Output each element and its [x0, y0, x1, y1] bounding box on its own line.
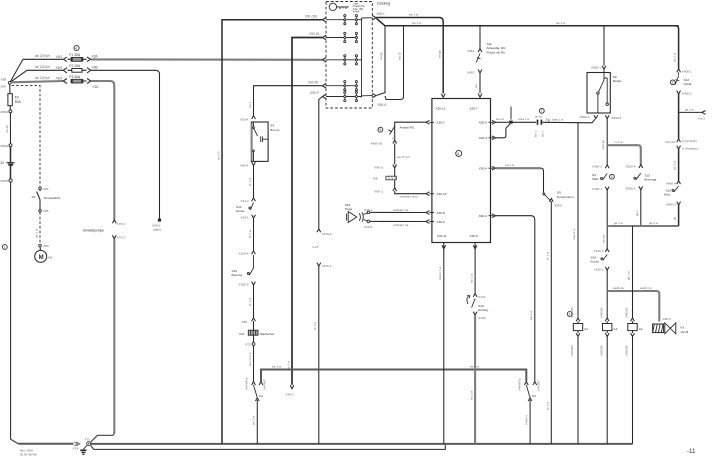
wire junction to A1: [577, 123, 579, 318]
svg-text:br 1 w: br 1 w: [248, 297, 252, 306]
wire A1 to bus: [577, 337, 579, 444]
connector X115-2: [317, 229, 332, 236]
svg-text:X485/86: X485/86: [599, 307, 603, 318]
connector X400-5: [666, 202, 681, 207]
connector X400-4: [666, 181, 681, 186]
svg-text:X20-6: X20-6: [479, 121, 488, 125]
svg-text:X8/2: X8/2: [56, 66, 63, 70]
svg-text:X70: X70: [245, 342, 251, 346]
branch X6-3: [679, 107, 706, 120]
svg-text:rosa ge: rosa ge: [601, 140, 605, 150]
svg-text:sw ge: sw ge: [437, 50, 441, 58]
svg-text:X600: X600: [554, 204, 562, 208]
pin labels right: [479, 121, 488, 219]
svg-text:Startsicher.: Startsicher.: [260, 332, 276, 336]
arrow X20/11 below box: [442, 243, 446, 249]
svg-text:S4: S4: [270, 123, 274, 127]
svg-text:sw 1 w: sw 1 w: [673, 52, 677, 62]
connector X14-1: [241, 215, 256, 220]
wire row1 to F1: [10, 59, 63, 82]
svg-text:K4: K4: [259, 394, 263, 398]
wire bus15 down to S9: [603, 26, 605, 66]
connector X444/87 right: [533, 382, 537, 385]
svg-text:br 1 w: br 1 w: [313, 321, 317, 330]
wire X20/5 down: [474, 249, 476, 293]
svg-text:br 1 w: br 1 w: [248, 177, 252, 186]
wire X20/3 jog to junction: [496, 124, 511, 138]
svg-text:ab 12(V)el: ab 12(V)el: [35, 65, 50, 69]
svg-text:ws sw: ws sw: [601, 234, 605, 243]
svg-text:X115-2: X115-2: [322, 232, 332, 236]
svg-text:weiß sw: weiß sw: [613, 286, 625, 290]
connector X140-1: [594, 249, 610, 253]
connector X90-L right edge: [372, 12, 385, 20]
connector X90-A right edge: [372, 93, 387, 106]
wire X19-2 to X20/9: [370, 220, 426, 222]
pin labels bottom: [437, 234, 478, 238]
fuse F0 50A: [8, 94, 22, 106]
svg-text:1: 1: [4, 245, 6, 249]
svg-text:A2: A2: [639, 327, 643, 331]
switch S16 Bremsg: [232, 255, 254, 277]
svg-text:X400-2: X400-2: [682, 92, 692, 96]
svg-text:M: M: [39, 255, 44, 261]
connector X100-5: [239, 282, 256, 287]
svg-text:ro 1 w: ro 1 w: [615, 140, 624, 144]
wire corner down to contact: [541, 168, 544, 192]
svg-text:X20-2: X20-2: [479, 214, 488, 218]
svg-text:X131: X131: [478, 295, 486, 299]
svg-text:X90-15: X90-15: [309, 32, 320, 36]
svg-text:ge 1 w: ge 1 w: [649, 221, 659, 225]
wire bus15 to X451: [479, 26, 481, 49]
wire K4 to bus: [256, 402, 258, 444]
fuse X11 Startsicherung: [239, 321, 275, 336]
svg-text:D1 (An.: D1 (An.: [666, 140, 677, 144]
wire X130 heavy to bus: [474, 315, 476, 444]
connector X484/86: [576, 318, 580, 321]
svg-text:Brems.: Brems.: [270, 128, 280, 132]
ignition box dashed: [326, 2, 372, 109]
svg-text:X90-A: X90-A: [378, 103, 388, 107]
svg-text:br 1 w: br 1 w: [248, 229, 252, 238]
grey bus y226: [607, 225, 678, 227]
svg-text:F0: F0: [15, 96, 19, 100]
wire A2 to bus: [632, 337, 634, 444]
switch S14 Kontakt: [591, 255, 608, 264]
svg-text:sw 1 w: sw 1 w: [469, 273, 473, 283]
wire X20/6 right: [496, 121, 510, 123]
circled ref 7: [535, 108, 544, 118]
wire X90-15 rail x292: [292, 38, 322, 385]
connector X90-15 left edge: [323, 35, 327, 40]
svg-text:X88/1: X88/1: [0, 110, 8, 114]
svg-text:Zündung: Zündung: [377, 2, 390, 6]
switch S12: [664, 186, 679, 196]
node X88/3: [0, 179, 12, 183]
svg-text:s4: s4: [392, 136, 396, 140]
svg-text:sw 1 w: sw 1 w: [286, 360, 290, 370]
svg-text:sw 1 w: sw 1 w: [529, 310, 533, 320]
arrow X20/1: [426, 120, 430, 124]
svg-text:7: 7: [541, 109, 543, 113]
svg-text:X452: X452: [467, 71, 475, 75]
circled ref 4 above F1: [74, 45, 79, 50]
svg-text:sw 1 w: sw 1 w: [412, 21, 422, 25]
svg-text:X86: X86: [43, 244, 49, 248]
svg-text:sw 1: sw 1: [248, 102, 252, 109]
svg-text:sw 1 w: sw 1 w: [252, 415, 256, 425]
svg-text:X444/87: X444/87: [537, 380, 541, 391]
svg-text:X420-1: X420-1: [592, 187, 602, 191]
bus 2 thin: [91, 445, 446, 450]
arrow into X20/7: [478, 94, 482, 98]
connector X131: [473, 294, 486, 300]
wire X20/1 to relay: [395, 122, 426, 140]
svg-text:K9: K9: [374, 176, 378, 180]
svg-text:X.6-3: X.6-3: [698, 117, 706, 121]
connector X444/87 left: [259, 382, 263, 385]
connector X486/86: [631, 318, 635, 321]
fuse A2: [628, 321, 643, 333]
connector X484/85: [576, 333, 580, 336]
ignition contacts cluster rows: [326, 15, 372, 102]
svg-text:rosa 1 w: rosa 1 w: [518, 117, 530, 121]
svg-text:X20-8: X20-8: [437, 211, 446, 215]
connector X8C: [87, 79, 91, 84]
connector X485/85: [605, 333, 609, 336]
svg-text:X74: X74: [73, 447, 79, 451]
svg-text:X90-3: X90-3: [663, 317, 672, 321]
node X73: [85, 438, 91, 446]
connector X90-R left edge: [323, 58, 327, 63]
arrow X20/5 below box: [473, 243, 477, 249]
svg-text:ab 12(V)el: ab 12(V)el: [35, 54, 50, 58]
svg-text:6: 6: [457, 152, 459, 156]
switch box S4: [251, 122, 280, 161]
svg-text:X600-3: X600-3: [611, 116, 621, 120]
svg-text:X44-2: X44-2: [286, 393, 295, 397]
connector X486/85: [631, 333, 635, 336]
solenoid valve F3: [653, 323, 689, 334]
svg-text:X85: X85: [43, 209, 49, 213]
svg-text:sw 1? w?: sw 1? w?: [397, 155, 410, 159]
arrow X20/8: [426, 211, 430, 215]
svg-text:ge 1: ge 1: [635, 210, 639, 216]
wire x318.8 lower to bus: [318, 266, 320, 444]
wire X20/4 heavy grey: [496, 167, 542, 169]
wire X90-50 rail to S4 column: [254, 86, 323, 116]
svg-text:Start: Start: [592, 177, 599, 181]
wire heavy 369.5: [261, 370, 526, 382]
svg-text:sw 1 w: sw 1 w: [35, 228, 39, 238]
node X88/1: [0, 106, 12, 114]
svg-text:X70-2: X70-2: [117, 236, 126, 240]
relay box S9: [587, 69, 622, 113]
svg-text:00.00 AB WK: 00.00 AB WK: [20, 453, 37, 457]
wire X500-1 to grey bus 226: [640, 190, 642, 226]
svg-text:X451: X451: [467, 49, 475, 53]
control unit box: [432, 99, 491, 243]
svg-text:30A: 30A: [1, 85, 7, 89]
pin labels left: [437, 121, 447, 224]
svg-text:rosa 1 w: rosa 1 w: [552, 118, 564, 122]
arrow X20/3: [492, 136, 496, 140]
dashed branch to S2: [12, 85, 41, 186]
dashed wire S2 to X86: [39, 212, 41, 244]
svg-text:sw 15: sw 15: [398, 52, 402, 60]
switch blade K3: [526, 385, 536, 398]
svg-text:sw 2.5: sw 2.5: [217, 151, 221, 160]
svg-text:sw rot 1 w: sw rot 1 w: [248, 352, 252, 366]
svg-text:A (Anschl.): A (Anschl.): [682, 139, 697, 143]
wire S4 box to X14-2: [253, 166, 255, 198]
svg-text:rot 25: rot 25: [5, 125, 9, 133]
wire X8B to x159 column: [91, 70, 160, 219]
svg-text:Entrieg.: Entrieg.: [478, 308, 489, 312]
svg-text:ab 12(V)el: ab 12(V)el: [35, 76, 50, 80]
svg-text:X88/3: X88/3: [0, 179, 8, 183]
wire X100-5 down: [253, 285, 255, 318]
terminal X09/1 end: [152, 219, 161, 232]
svg-text:ws rot: ws rot: [496, 117, 504, 121]
wire X19-1 to X20/8: [370, 211, 426, 213]
svg-text:X8C: X8C: [93, 85, 100, 89]
svg-text:31: 31: [0, 161, 4, 165]
connector X90-P left edge: [323, 94, 327, 99]
svg-text:X420-2: X420-2: [592, 165, 602, 169]
arrow into X20/12: [441, 94, 445, 98]
node X86: [39, 244, 49, 248]
wire x114 lower grey to ground node: [113, 239, 115, 433]
svg-text:rosa 1 w: rosa 1 w: [572, 228, 576, 240]
switch S4 Start: [592, 173, 607, 181]
svg-text:Ventil: Ventil: [681, 330, 689, 334]
grey branch to X500-4: [607, 145, 641, 164]
connector X87-1: [374, 188, 397, 194]
connector X8B out: [87, 68, 91, 73]
svg-text:Relais: Relais: [613, 79, 622, 83]
svg-text:X60-4: X60-4: [240, 164, 249, 168]
switch S14 Kontakt: [236, 203, 254, 213]
wire X452 to X20/7: [479, 73, 481, 93]
svg-text:3 Anl. (50): 3 Anl. (50): [353, 8, 364, 11]
connector X8/3: [63, 79, 67, 84]
fuse F3 40A: [69, 75, 86, 83]
wire X600/3 down: [606, 119, 608, 165]
svg-text:A1: A1: [584, 327, 588, 331]
svg-text:sw 1 w: sw 1 w: [673, 160, 677, 170]
connector X444/87a right: [524, 382, 528, 385]
connector X91 left edge: [323, 17, 327, 22]
svg-text:ge: ge: [673, 216, 677, 220]
svg-text:Tg: Tg: [546, 118, 550, 122]
svg-text:X486/86: X486/86: [625, 307, 629, 318]
svg-text:Umwälzpumpe: Umwälzpumpe: [83, 229, 104, 233]
svg-text:schwarz rot: schwarz rot: [393, 208, 409, 212]
wire A4 to bus: [606, 337, 608, 444]
wire x403.5 loop to X90-A: [385, 26, 404, 100]
fuse F2 15A: [68, 64, 87, 72]
switch S15 Brennga: [634, 173, 657, 181]
svg-text:gn sw: gn sw: [535, 116, 542, 119]
svg-text:Schal.: Schal.: [684, 82, 693, 86]
pin labels top: [436, 107, 479, 111]
wire row3 to F3: [11, 81, 63, 82]
hook arrow: [467, 296, 470, 305]
svg-text:ge 1 w: ge 1 w: [627, 270, 631, 280]
svg-text:A4: A4: [613, 327, 617, 331]
svg-text:braun 1 w: braun 1 w: [438, 266, 442, 280]
svg-text:X/87-2: X/87-2: [374, 165, 383, 169]
svg-text:X20-4: X20-4: [479, 167, 488, 171]
svg-text:2: 2: [672, 81, 674, 85]
svg-text:ge 1 w: ge 1 w: [685, 107, 695, 111]
svg-text:br 1 w: br 1 w: [546, 251, 550, 260]
wire to X87-2: [394, 144, 396, 165]
terminal X19-1: [364, 208, 373, 215]
wire X14-1 down: [253, 218, 255, 251]
connector X400-2: [677, 91, 692, 96]
relay K9: [374, 168, 397, 188]
svg-text:schwarz rot: schwarz rot: [393, 223, 409, 227]
node X88/2: [0, 144, 12, 148]
key icon: [329, 3, 349, 10]
switch blade K4: [254, 385, 264, 398]
svg-text:X20-11: X20-11: [437, 234, 447, 238]
connector X600-1: [591, 66, 606, 70]
node X8B junction: [1, 78, 12, 89]
wire X91(30) rail x222: [222, 20, 322, 444]
terminal X19-2: [364, 220, 373, 229]
connector X87-2: [374, 165, 397, 170]
svg-text:X84: X84: [43, 187, 49, 191]
svg-text:ge 1 w: ge 1 w: [614, 221, 624, 225]
svg-text:3: 3: [611, 175, 613, 179]
svg-text:X20-7: X20-7: [470, 107, 479, 111]
junction dot: [509, 121, 513, 124]
wire X420-1 down through grey bus: [606, 190, 608, 249]
svg-text:Brennga.: Brennga.: [645, 177, 658, 181]
svg-text:M2: M2: [48, 256, 53, 260]
wire row2 to F2: [10, 70, 63, 82]
svg-text:K3: K3: [532, 394, 536, 398]
svg-text:X91 (30): X91 (30): [305, 14, 317, 18]
connector X53-4: [240, 116, 255, 122]
connector below K3: [528, 398, 532, 402]
svg-text:X20-10: X20-10: [437, 192, 447, 196]
wire X400-5 to grey bus: [678, 205, 680, 226]
svg-text:X600-1: X600-1: [591, 66, 601, 70]
svg-text:X90-L: X90-L: [376, 12, 385, 16]
svg-text:1 aus: 1 aus: [353, 3, 359, 5]
connector X420-2: [592, 165, 609, 169]
svg-text:X8B: X8B: [92, 66, 99, 70]
svg-text:X484/86: X484/86: [570, 307, 574, 318]
svg-text:X100-4: X100-4: [239, 252, 249, 256]
connector X600-3: [605, 115, 621, 120]
connector arrow X74: [73, 442, 80, 451]
svg-text:X8A: X8A: [92, 55, 99, 59]
arrow X20/2: [492, 214, 496, 218]
svg-text:sw 1 w: sw 1 w: [556, 21, 566, 25]
svg-text:Druckwächt.: Druckwächt.: [44, 196, 61, 200]
bus 31 heavy grey main: [91, 443, 633, 445]
wire D1 to X400-4: [678, 149, 680, 181]
svg-text:F2 15A: F2 15A: [69, 64, 80, 68]
svg-text:br 1 w: br 1 w: [546, 401, 550, 410]
grey stub up: [510, 107, 512, 120]
svg-text:K (Kaltstar.): K (Kaltstar.): [682, 146, 698, 150]
arrow X20/4: [492, 166, 496, 170]
svg-text:F3: F3: [681, 325, 685, 329]
svg-text:X500-4: X500-4: [626, 164, 636, 168]
fuse A1: [573, 321, 588, 333]
connector X8/1: [63, 57, 66, 62]
svg-text:rot 1 w: rot 1 w: [505, 163, 515, 167]
wire X90-L line1 to X20/12: [376, 18, 443, 94]
svg-text:sw ge: sw ge: [379, 52, 383, 60]
wire X90-L diag to bus15: [377, 19, 386, 26]
connector X500-4: [626, 164, 643, 168]
wire Tg to X600/4: [543, 119, 596, 123]
svg-text:X110-1: X110-1: [322, 264, 332, 268]
grey branch y291 to valve: [607, 291, 659, 322]
svg-text:X88/2: X88/2: [0, 144, 8, 148]
svg-text:schwarz umd: schwarz umd: [400, 195, 418, 199]
svg-text:X90-P: X90-P: [310, 91, 319, 95]
bus 15 line2: [385, 25, 679, 27]
svg-text:A55: A55: [242, 320, 248, 324]
connector X8A: [87, 57, 91, 62]
wire X400-2 down: [678, 94, 680, 139]
svg-text:X600-4: X600-4: [580, 115, 590, 119]
svg-text:X90-50: X90-50: [308, 80, 319, 84]
svg-text:F1 30A: F1 30A: [69, 53, 80, 57]
connector X60-4: [240, 162, 255, 168]
svg-text:S2: S2: [32, 195, 36, 199]
switch S9 pump contact: [543, 191, 575, 201]
svg-text:X/87-1: X/87-1: [374, 190, 383, 194]
connector Tg pair: [538, 118, 550, 125]
wire bus15 corner down: [676, 26, 679, 69]
connector X8/2: [63, 68, 67, 73]
svg-text:X140-2: X140-2: [594, 267, 604, 271]
svg-text:X11: X11: [239, 332, 245, 336]
switch S2 Druckwaechter: [32, 190, 62, 201]
svg-text:2 Fahrt (15): 2 Fahrt (15): [353, 5, 365, 8]
connector X600: [549, 198, 562, 207]
svg-text:X500-1: X500-1: [626, 187, 636, 191]
wire F0 column top: [9, 84, 11, 94]
wire X140-2 down to A4: [606, 270, 608, 318]
connector A55: [242, 318, 256, 324]
connector X660-30: [371, 140, 397, 145]
svg-text:Pumpenkon.: Pumpenkon.: [557, 195, 575, 199]
starter motor M1: [35, 247, 53, 263]
svg-text:Anlass RG: Anlass RG: [400, 126, 415, 130]
svg-text:4 Park: 4 Park: [353, 11, 360, 14]
svg-text:Konta.: Konta.: [236, 209, 245, 213]
ground: [80, 445, 87, 454]
svg-text:X660-30: X660-30: [371, 141, 383, 145]
node X85: [39, 200, 49, 214]
wire X20/11 down: [443, 249, 445, 444]
svg-text:X19-2: X19-2: [364, 225, 373, 229]
svg-text:weiß 1 w: weiß 1 w: [640, 286, 653, 290]
connector X420-1: [592, 187, 609, 191]
switch S13: [675, 72, 692, 86]
